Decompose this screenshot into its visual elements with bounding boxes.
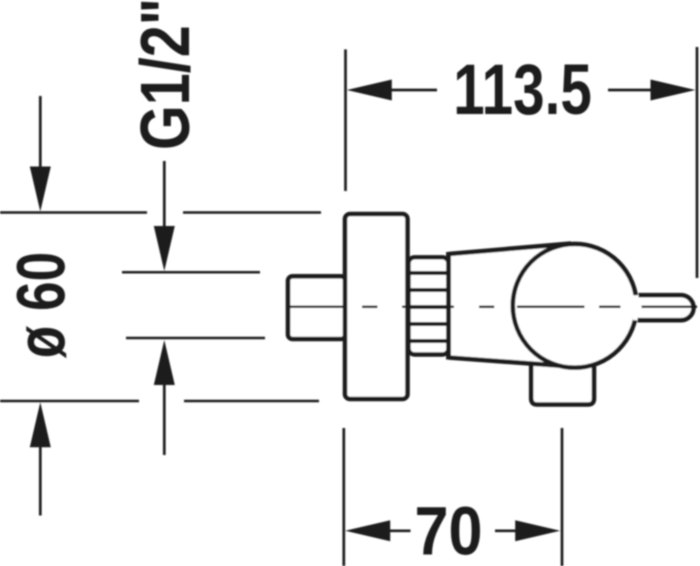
dim o60 top arrow shaft — [39, 96, 42, 170]
dim o60 bottom arrowhead — [30, 402, 51, 447]
knurled rib section outline — [409, 257, 449, 354]
dim 113.5 left arrowhead — [347, 80, 392, 101]
rib line 4 — [408, 322, 449, 326]
center line dash 6 — [599, 306, 621, 309]
dim 70 right shaft — [495, 529, 516, 532]
dim 113.5 left extension line — [344, 49, 347, 191]
dim 70 right arrowhead — [515, 520, 560, 541]
svg-text:ø 60: ø 60 — [3, 252, 80, 359]
center line dash 4 — [479, 306, 494, 309]
dim 70 right extension line — [561, 428, 564, 566]
dim o60 bottom arrow shaft — [39, 447, 42, 516]
dim G1/2 bottom arrow shaft — [163, 384, 166, 455]
dim G1/2 top arrow shaft — [163, 161, 166, 228]
extension line flange bottom right part — [184, 400, 319, 403]
center line dash 2 — [362, 306, 378, 309]
nut G1/2 connector block — [288, 276, 346, 339]
dim G1/2 bottom arrowhead — [154, 340, 175, 385]
extension line nut bottom — [126, 337, 265, 340]
center line dash 5 — [517, 306, 585, 309]
extension line nut top — [122, 271, 260, 274]
rib line 5 — [408, 339, 449, 343]
svg-text:G1/2": G1/2" — [126, 0, 204, 150]
rib line 1 — [408, 271, 449, 275]
center line dash 3 — [402, 306, 454, 309]
dim 70 left shaft — [390, 529, 411, 532]
rib line 2 — [408, 288, 449, 292]
dim 113.5 right extension line — [696, 47, 699, 278]
outlet spout — [531, 350, 594, 405]
extension line flange top left part — [0, 211, 147, 214]
svg-text:70: 70 — [415, 493, 483, 566]
body top slant edge — [449, 244, 572, 254]
spindle stub fill — [633, 295, 694, 320]
center line dash 1 — [288, 306, 346, 309]
dim G1/2 top arrowhead — [154, 226, 175, 271]
extension line flange top right part — [183, 211, 321, 214]
dim 70 left extension line — [342, 428, 345, 566]
valve head circle — [513, 244, 637, 368]
body bottom slant edge — [449, 358, 563, 366]
dim 113.5 right arrowhead — [651, 80, 696, 101]
spindle stub outline — [638, 295, 694, 320]
dim 70 left arrowhead — [345, 520, 390, 541]
escutcheon flange ø60 — [345, 214, 408, 399]
dim 113.5 left shaft — [391, 89, 437, 92]
dim o60 top arrowhead — [30, 167, 51, 212]
svg-text:113.5: 113.5 — [453, 51, 592, 130]
extension line flange bottom left part — [0, 400, 139, 403]
center line dash 7 — [642, 306, 698, 309]
dim 113.5 right shaft — [608, 89, 653, 92]
mixer body taper fill — [449, 244, 576, 368]
body left edge over ribs — [446, 252, 451, 360]
rib line 3 — [408, 305, 449, 309]
body left edge — [446, 252, 451, 360]
